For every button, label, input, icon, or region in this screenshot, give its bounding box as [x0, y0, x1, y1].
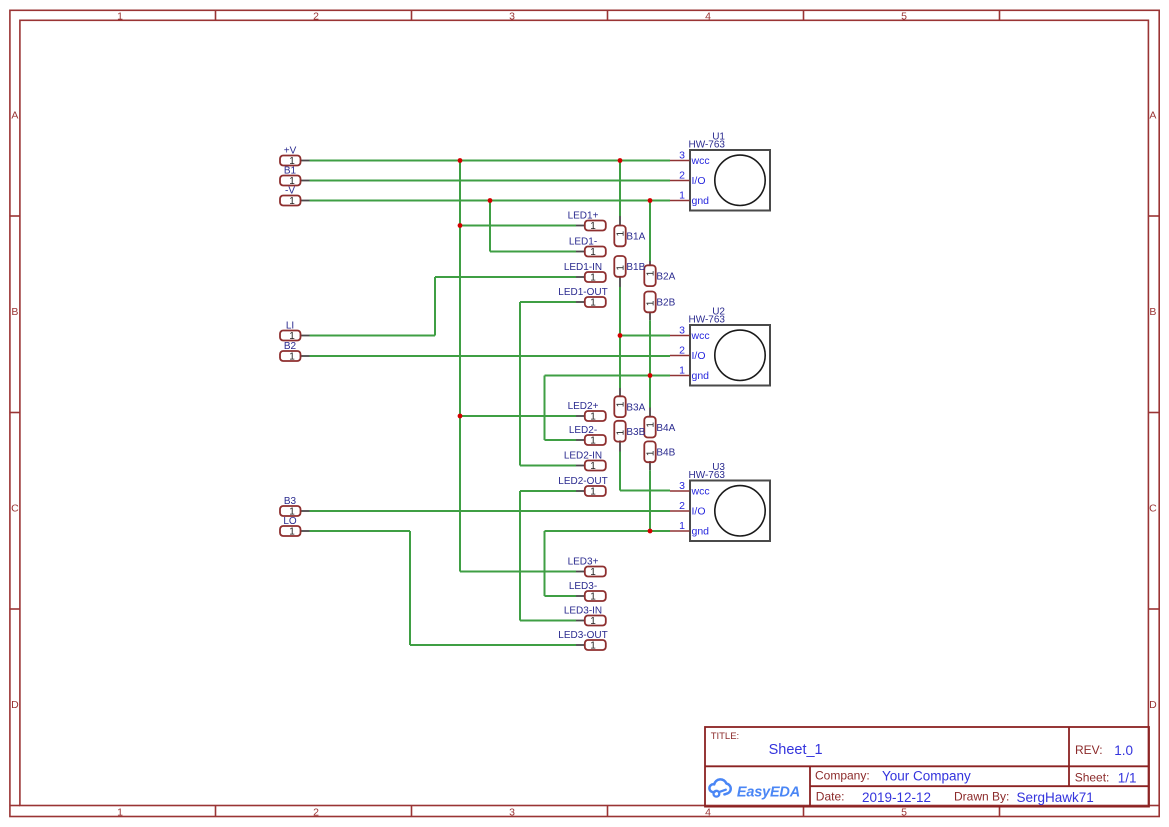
svg-text:I/O: I/O	[692, 350, 706, 362]
svg-text:LED3+: LED3+	[568, 557, 599, 568]
svg-text:B1: B1	[284, 166, 297, 177]
svg-text:1: 1	[590, 461, 596, 472]
svg-text:LED3-OUT: LED3-OUT	[558, 630, 607, 641]
svg-text:LED2-: LED2-	[569, 425, 597, 436]
svg-text:LED3-: LED3-	[569, 581, 597, 592]
svg-text:B3A: B3A	[626, 402, 645, 413]
svg-text:LED1+: LED1+	[568, 211, 599, 222]
svg-text:LO: LO	[283, 516, 297, 527]
svg-text:1: 1	[590, 487, 596, 498]
svg-text:5: 5	[901, 10, 907, 22]
svg-text:D: D	[1149, 699, 1157, 711]
svg-text:1: 1	[590, 412, 596, 423]
svg-text:LED1-IN: LED1-IN	[564, 262, 602, 273]
svg-text:Your Company: Your Company	[882, 769, 971, 784]
svg-text:Drawn By:: Drawn By:	[954, 789, 1009, 803]
svg-text:1: 1	[590, 641, 596, 652]
svg-text:1: 1	[117, 806, 123, 818]
svg-text:2: 2	[313, 10, 319, 22]
svg-text:Sheet:: Sheet:	[1075, 770, 1110, 784]
svg-text:1: 1	[615, 230, 626, 236]
svg-text:I/O: I/O	[692, 175, 706, 187]
svg-text:HW-763: HW-763	[689, 315, 726, 326]
svg-text:1: 1	[615, 429, 626, 435]
svg-text:LED2+: LED2+	[568, 401, 599, 412]
svg-text:SergHawk71: SergHawk71	[1017, 790, 1094, 805]
svg-text:1: 1	[645, 450, 656, 456]
svg-text:REV:: REV:	[1075, 743, 1103, 757]
svg-text:1: 1	[117, 10, 123, 22]
svg-text:Date:: Date:	[816, 789, 845, 803]
svg-text:B: B	[11, 306, 18, 318]
svg-text:B: B	[1149, 306, 1156, 318]
svg-text:wcc: wcc	[691, 486, 710, 498]
svg-text:2019-12-12: 2019-12-12	[862, 790, 931, 805]
svg-text:1: 1	[590, 247, 596, 258]
svg-text:1: 1	[590, 221, 596, 232]
svg-text:1: 1	[590, 298, 596, 309]
svg-text:1: 1	[289, 196, 295, 207]
svg-text:EasyEDA: EasyEDA	[737, 784, 800, 800]
svg-text:HW-763: HW-763	[689, 140, 726, 151]
svg-text:B2: B2	[284, 341, 297, 352]
svg-text:1: 1	[590, 616, 596, 627]
svg-text:LED1-OUT: LED1-OUT	[558, 287, 607, 298]
svg-text:B3: B3	[284, 496, 297, 507]
svg-text:-V: -V	[285, 186, 295, 197]
svg-text:1: 1	[645, 422, 656, 428]
svg-text:1: 1	[679, 520, 685, 532]
svg-text:1: 1	[590, 592, 596, 603]
svg-text:3: 3	[509, 10, 515, 22]
svg-text:1.0: 1.0	[1114, 743, 1133, 758]
svg-text:3: 3	[679, 480, 685, 492]
svg-text:LED2-IN: LED2-IN	[564, 451, 602, 462]
svg-text:gnd: gnd	[692, 195, 710, 207]
svg-text:C: C	[11, 502, 19, 514]
svg-text:TITLE:: TITLE:	[711, 731, 740, 742]
svg-text:B1B: B1B	[626, 262, 645, 273]
svg-text:B3B: B3B	[626, 427, 645, 438]
svg-text:C: C	[1149, 502, 1157, 514]
svg-text:1: 1	[645, 270, 656, 276]
svg-text:+V: +V	[284, 146, 297, 157]
svg-text:5: 5	[901, 806, 907, 818]
svg-text:LED2-OUT: LED2-OUT	[558, 476, 607, 487]
svg-text:1/1: 1/1	[1118, 770, 1137, 785]
svg-text:1: 1	[590, 273, 596, 284]
svg-text:1: 1	[615, 401, 626, 407]
svg-text:wcc: wcc	[691, 155, 710, 167]
svg-text:A: A	[11, 110, 18, 122]
svg-text:B4B: B4B	[656, 448, 675, 459]
svg-text:D: D	[11, 699, 19, 711]
svg-text:1: 1	[590, 436, 596, 447]
svg-text:1: 1	[615, 265, 626, 271]
svg-text:4: 4	[705, 806, 711, 818]
svg-text:4: 4	[705, 10, 711, 22]
svg-text:gnd: gnd	[692, 370, 710, 382]
svg-text:Company:: Company:	[815, 769, 870, 783]
svg-text:2: 2	[679, 170, 685, 182]
svg-text:B1A: B1A	[626, 232, 645, 243]
svg-text:3: 3	[679, 150, 685, 162]
svg-text:B2B: B2B	[656, 298, 675, 309]
svg-text:wcc: wcc	[691, 330, 710, 342]
svg-text:2: 2	[313, 806, 319, 818]
svg-text:1: 1	[645, 300, 656, 306]
svg-text:LI: LI	[286, 321, 294, 332]
svg-text:1: 1	[289, 527, 295, 538]
svg-text:1: 1	[590, 567, 596, 578]
svg-text:gnd: gnd	[692, 526, 710, 538]
svg-text:I/O: I/O	[692, 506, 706, 518]
svg-text:1: 1	[679, 190, 685, 202]
svg-text:2: 2	[679, 345, 685, 357]
svg-text:2: 2	[679, 500, 685, 512]
svg-text:B4A: B4A	[656, 423, 675, 434]
svg-text:LED1-: LED1-	[569, 237, 597, 248]
svg-text:B2A: B2A	[656, 271, 675, 282]
svg-text:HW-763: HW-763	[689, 470, 726, 481]
svg-text:Sheet_1: Sheet_1	[769, 742, 823, 758]
svg-text:3: 3	[509, 806, 515, 818]
svg-text:A: A	[1149, 110, 1156, 122]
svg-text:LED3-IN: LED3-IN	[564, 606, 602, 617]
svg-text:1: 1	[679, 365, 685, 377]
svg-text:3: 3	[679, 325, 685, 337]
svg-text:1: 1	[289, 352, 295, 363]
